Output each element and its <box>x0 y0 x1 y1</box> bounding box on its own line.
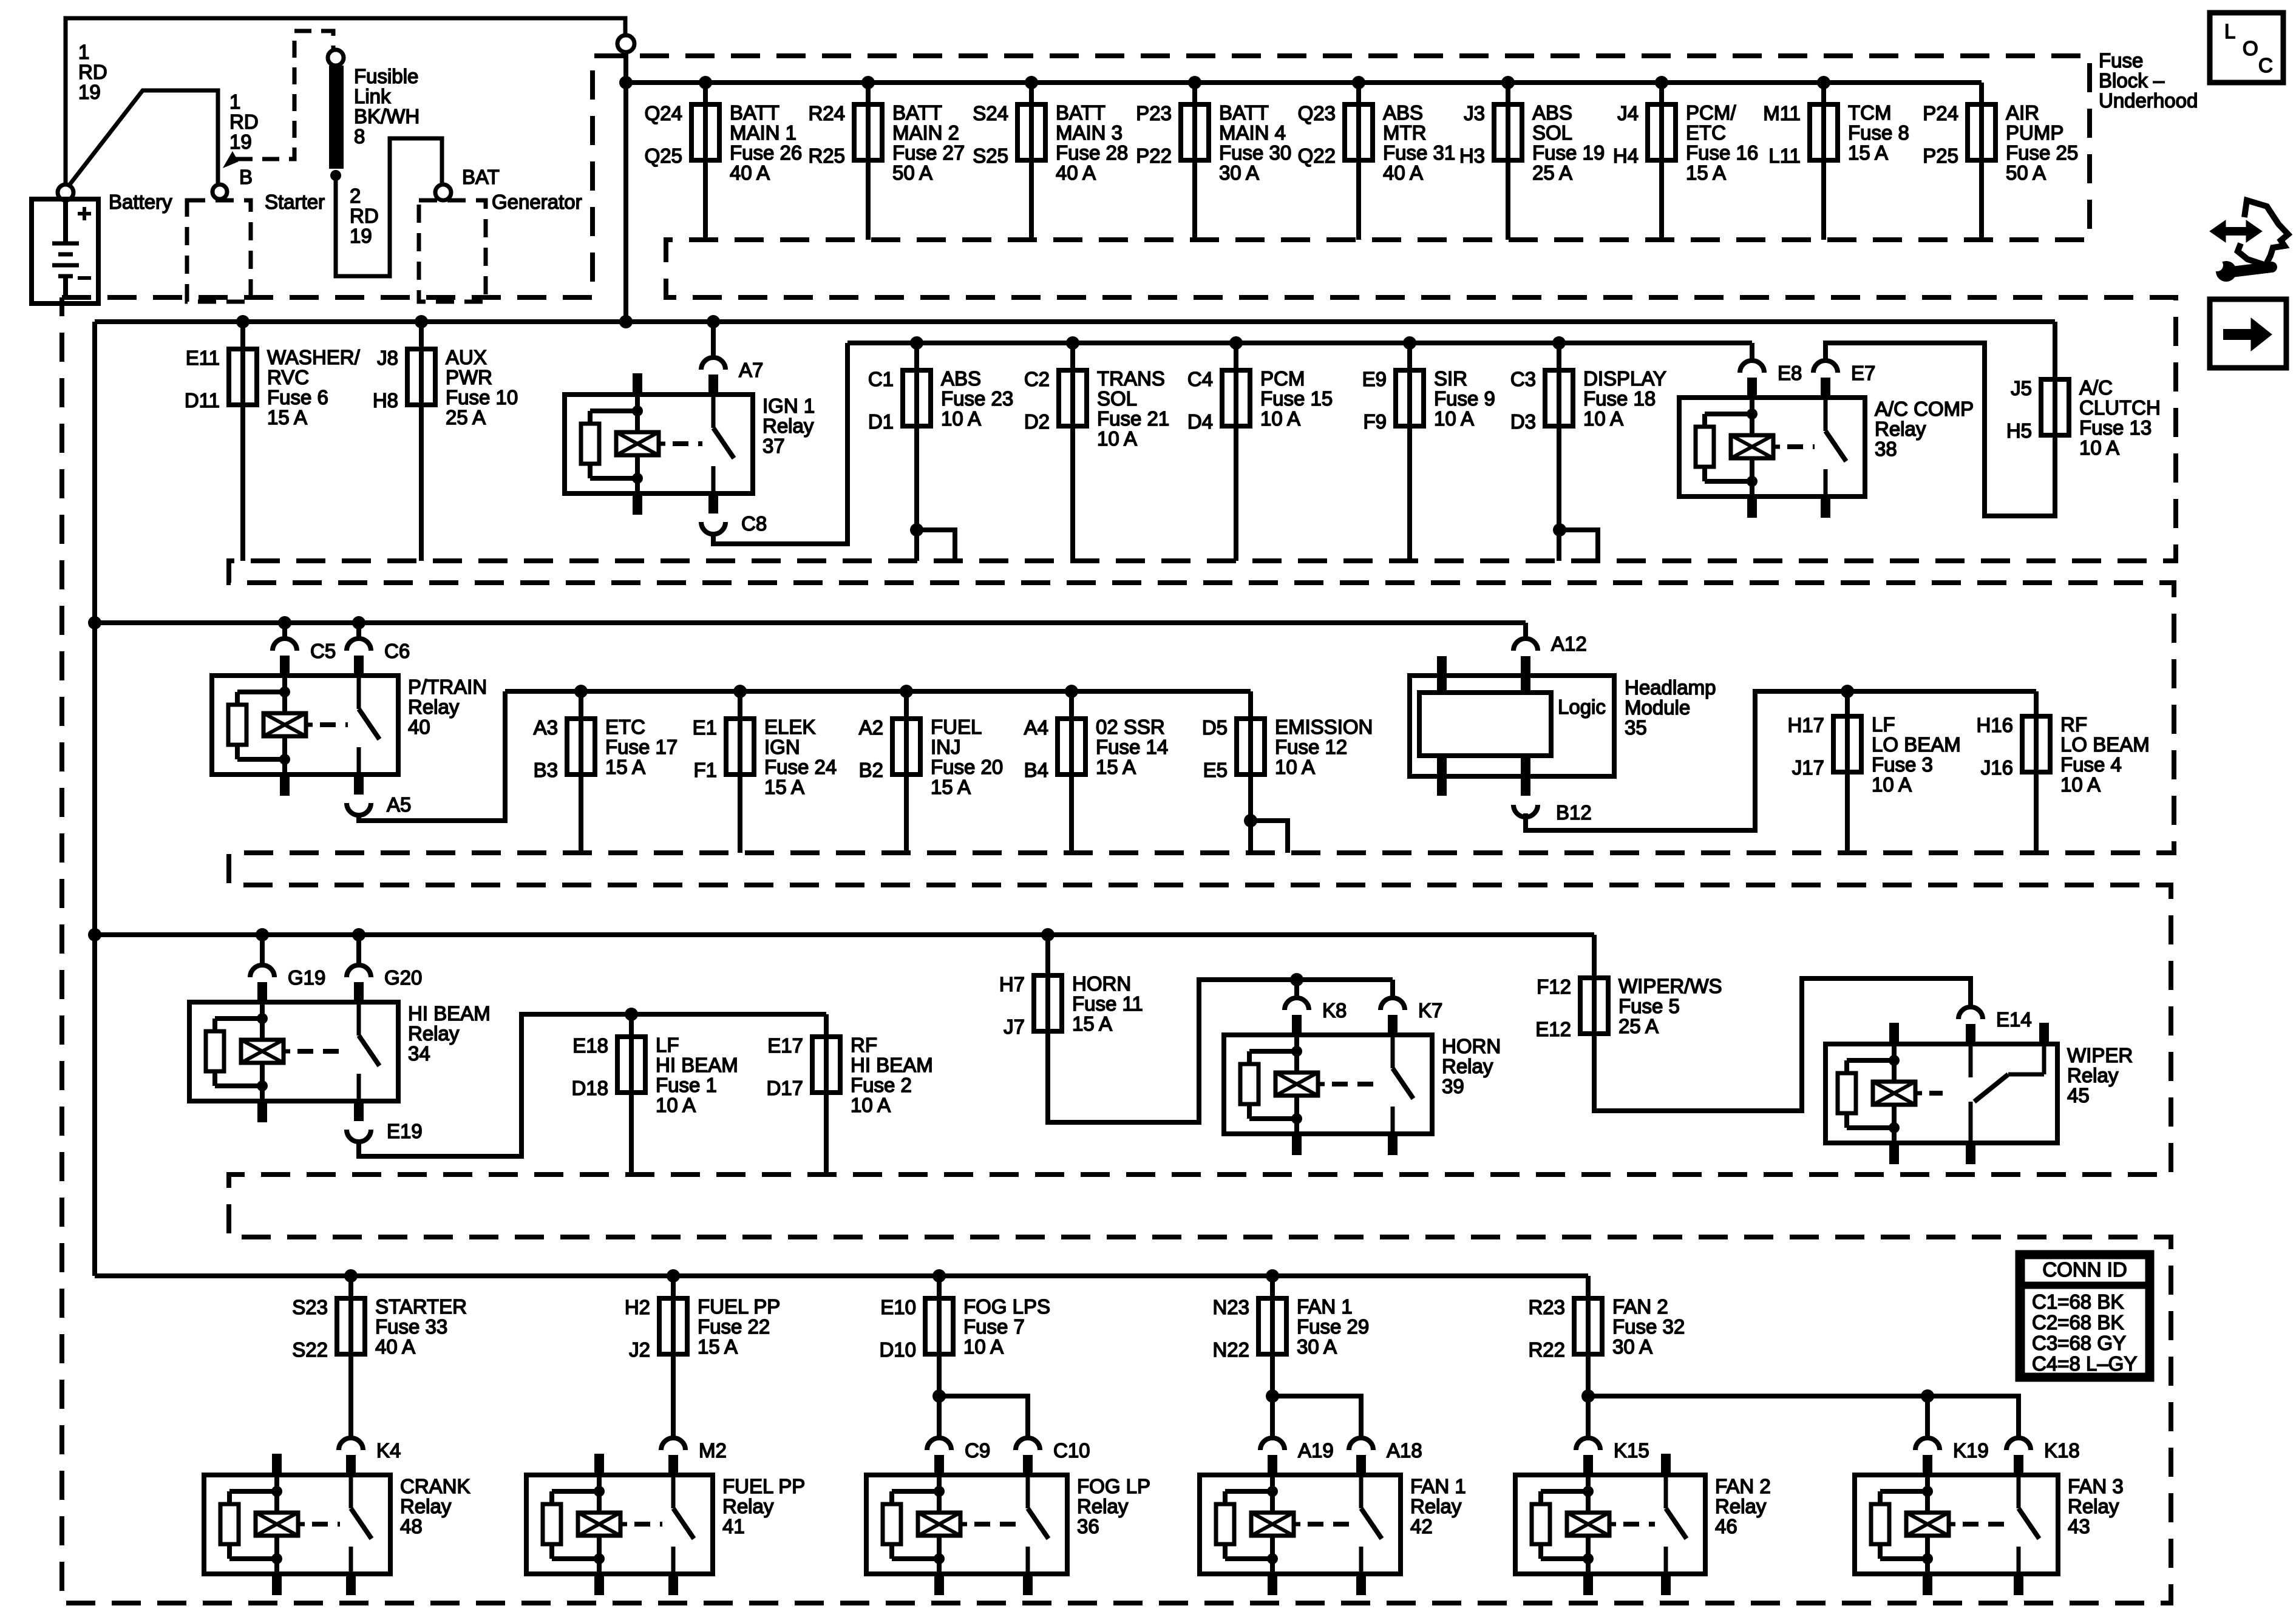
svg-text:H17: H17 <box>1787 714 1824 736</box>
svg-text:M11: M11 <box>1763 102 1801 124</box>
svg-text:C3=68 GY: C3=68 GY <box>2032 1332 2126 1354</box>
svg-text:Fuse 1: Fuse 1 <box>656 1074 717 1096</box>
svg-text:Fuse 11: Fuse 11 <box>1072 992 1143 1015</box>
svg-text:S22: S22 <box>292 1338 328 1361</box>
svg-text:HI BEAM: HI BEAM <box>851 1054 933 1076</box>
svg-text:Q23: Q23 <box>1298 102 1336 124</box>
svg-text:41: 41 <box>722 1515 745 1537</box>
svg-text:FOG LPS: FOG LPS <box>963 1295 1050 1318</box>
svg-text:H8: H8 <box>373 389 398 412</box>
svg-text:WASHER/: WASHER/ <box>267 346 361 368</box>
svg-text:P22: P22 <box>1136 144 1172 167</box>
svg-text:C: C <box>2258 54 2273 76</box>
svg-text:R25: R25 <box>808 144 845 167</box>
svg-text:Fuse 26: Fuse 26 <box>730 141 802 164</box>
svg-text:FUEL PP: FUEL PP <box>722 1475 805 1497</box>
svg-text:RD: RD <box>350 205 379 227</box>
svg-text:E11: E11 <box>186 347 220 369</box>
svg-text:Relay: Relay <box>1875 418 1926 440</box>
svg-text:RD: RD <box>229 110 259 133</box>
svg-text:Relay: Relay <box>1715 1495 1767 1517</box>
svg-text:ABS: ABS <box>1383 101 1423 124</box>
svg-text:36: 36 <box>1077 1515 1099 1537</box>
svg-text:A12: A12 <box>1551 632 1587 655</box>
svg-text:Fuse 3: Fuse 3 <box>1872 753 1933 776</box>
svg-text:40: 40 <box>408 716 430 738</box>
svg-text:E9: E9 <box>1362 368 1387 390</box>
svg-text:B4: B4 <box>1024 759 1048 781</box>
svg-text:HORN: HORN <box>1072 972 1131 995</box>
svg-text:K7: K7 <box>1418 999 1442 1022</box>
svg-text:CRANK: CRANK <box>400 1475 470 1497</box>
svg-text:E10: E10 <box>880 1296 916 1318</box>
svg-text:D3: D3 <box>1510 410 1536 433</box>
svg-text:Relay: Relay <box>1442 1055 1493 1077</box>
svg-text:P23: P23 <box>1136 102 1172 124</box>
svg-text:A19: A19 <box>1298 1439 1334 1462</box>
svg-text:A4: A4 <box>1024 716 1048 739</box>
svg-text:A5: A5 <box>387 793 411 816</box>
svg-text:BAT: BAT <box>462 166 500 188</box>
svg-text:37: 37 <box>763 435 785 457</box>
svg-text:B2: B2 <box>859 759 883 781</box>
svg-text:O: O <box>2243 37 2258 59</box>
svg-text:Relay: Relay <box>2068 1495 2119 1517</box>
svg-text:Q22: Q22 <box>1298 144 1336 167</box>
svg-text:G20: G20 <box>384 966 422 989</box>
svg-text:15 A: 15 A <box>267 406 307 429</box>
svg-text:MAIN 1: MAIN 1 <box>730 121 796 144</box>
svg-text:H5: H5 <box>2006 419 2032 442</box>
svg-text:K19: K19 <box>1953 1439 1989 1462</box>
svg-text:15 A: 15 A <box>698 1335 738 1358</box>
svg-text:C2=68 BK: C2=68 BK <box>2032 1311 2124 1334</box>
svg-text:C4=8 L–GY: C4=8 L–GY <box>2032 1352 2137 1375</box>
svg-text:R22: R22 <box>1528 1338 1565 1361</box>
svg-text:IGN: IGN <box>764 736 800 758</box>
svg-text:A7: A7 <box>739 359 763 381</box>
svg-text:D17: D17 <box>766 1077 803 1099</box>
svg-text:Fuse 30: Fuse 30 <box>1219 141 1291 164</box>
svg-text:50 A: 50 A <box>892 161 932 184</box>
svg-text:SOL: SOL <box>1532 121 1572 144</box>
svg-text:H3: H3 <box>1459 144 1485 167</box>
svg-text:PUMP: PUMP <box>2006 121 2063 144</box>
svg-text:10 A: 10 A <box>1434 407 1474 430</box>
svg-text:J16: J16 <box>1981 756 2013 779</box>
svg-text:15 A: 15 A <box>931 776 971 798</box>
svg-text:FAN 1: FAN 1 <box>1297 1295 1353 1318</box>
svg-text:HI BEAM: HI BEAM <box>408 1002 491 1025</box>
svg-text:Fuse: Fuse <box>2099 49 2143 72</box>
svg-text:C1=68 BK: C1=68 BK <box>2032 1290 2124 1313</box>
svg-text:Relay: Relay <box>763 415 814 437</box>
svg-text:J8: J8 <box>377 347 398 369</box>
svg-text:K8: K8 <box>1322 999 1347 1022</box>
svg-text:BATT: BATT <box>1219 101 1269 124</box>
svg-text:30 A: 30 A <box>1612 1335 1652 1358</box>
svg-text:CONN ID: CONN ID <box>2042 1258 2127 1281</box>
svg-text:E18: E18 <box>572 1034 608 1057</box>
svg-text:Starter: Starter <box>265 191 325 213</box>
svg-text:40 A: 40 A <box>1056 161 1096 184</box>
svg-text:FAN 2: FAN 2 <box>1612 1295 1668 1318</box>
svg-text:40 A: 40 A <box>730 161 770 184</box>
svg-text:BATT: BATT <box>730 101 779 124</box>
svg-text:E1: E1 <box>693 716 717 739</box>
svg-text:ABS: ABS <box>1532 101 1572 124</box>
svg-text:A/C: A/C <box>2079 376 2113 399</box>
svg-text:Fuse 13: Fuse 13 <box>2079 416 2152 439</box>
svg-text:Fuse 21: Fuse 21 <box>1097 407 1169 430</box>
svg-text:RF: RF <box>851 1034 877 1056</box>
svg-text:A/C COMP: A/C COMP <box>1875 398 1974 420</box>
svg-text:HI BEAM: HI BEAM <box>656 1054 738 1076</box>
svg-text:P24: P24 <box>1923 102 1958 124</box>
svg-text:1: 1 <box>78 41 89 63</box>
svg-text:E5: E5 <box>1203 759 1228 781</box>
svg-text:10 A: 10 A <box>2060 773 2101 796</box>
svg-text:Fuse 24: Fuse 24 <box>764 756 837 778</box>
svg-text:2: 2 <box>350 185 361 207</box>
svg-text:15 A: 15 A <box>1096 756 1136 778</box>
svg-text:15 A: 15 A <box>1072 1012 1112 1035</box>
svg-text:F9: F9 <box>1363 410 1387 433</box>
svg-text:10 A: 10 A <box>851 1094 891 1116</box>
svg-text:Fuse 33: Fuse 33 <box>375 1315 447 1338</box>
svg-text:D18: D18 <box>571 1077 608 1099</box>
svg-text:B3: B3 <box>534 759 558 781</box>
svg-text:C5: C5 <box>310 640 336 662</box>
svg-text:40 A: 40 A <box>375 1335 415 1358</box>
svg-text:BATT: BATT <box>892 101 942 124</box>
svg-text:40 A: 40 A <box>1383 161 1423 184</box>
svg-text:Fuse 20: Fuse 20 <box>931 756 1003 778</box>
svg-text:Fuse 27: Fuse 27 <box>892 141 965 164</box>
svg-text:H4: H4 <box>1613 144 1639 167</box>
svg-text:C6: C6 <box>384 640 410 662</box>
svg-text:INJ: INJ <box>931 736 961 758</box>
svg-text:D4: D4 <box>1187 410 1213 433</box>
svg-text:E12: E12 <box>1535 1018 1571 1040</box>
svg-text:Fuse 15: Fuse 15 <box>1260 387 1333 410</box>
svg-text:Module: Module <box>1625 696 1690 719</box>
svg-text:D5: D5 <box>1202 716 1228 739</box>
svg-text:19: 19 <box>78 81 101 103</box>
svg-text:BK/WH: BK/WH <box>354 105 419 127</box>
svg-text:Fuse 29: Fuse 29 <box>1297 1315 1369 1338</box>
svg-text:ETC: ETC <box>605 716 645 738</box>
svg-text:10 A: 10 A <box>963 1335 1004 1358</box>
svg-text:Fuse 7: Fuse 7 <box>963 1315 1025 1338</box>
svg-text:J5: J5 <box>2011 377 2032 399</box>
svg-text:35: 35 <box>1625 716 1647 739</box>
svg-text:Relay: Relay <box>408 696 460 718</box>
svg-text:F1: F1 <box>693 759 717 781</box>
svg-text:C10: C10 <box>1053 1439 1090 1462</box>
svg-text:P/TRAIN: P/TRAIN <box>408 676 487 698</box>
svg-text:48: 48 <box>400 1515 423 1537</box>
svg-text:Fuse 28: Fuse 28 <box>1056 141 1128 164</box>
svg-text:J4: J4 <box>1617 102 1639 124</box>
svg-text:P25: P25 <box>1923 144 1958 167</box>
svg-text:D2: D2 <box>1024 410 1050 433</box>
svg-text:J17: J17 <box>1792 756 1824 779</box>
svg-text:FUEL: FUEL <box>931 716 982 738</box>
svg-text:K4: K4 <box>376 1439 401 1462</box>
svg-text:Fuse 8: Fuse 8 <box>1848 121 1909 144</box>
svg-text:MAIN 3: MAIN 3 <box>1056 121 1123 144</box>
svg-text:10 A: 10 A <box>941 407 981 430</box>
svg-text:B12: B12 <box>1556 801 1592 824</box>
svg-text:MTR: MTR <box>1383 121 1426 144</box>
svg-text:Fuse 17: Fuse 17 <box>605 736 678 758</box>
svg-text:L11: L11 <box>1768 144 1801 167</box>
svg-text:Fuse 2: Fuse 2 <box>851 1074 912 1096</box>
svg-text:K15: K15 <box>1614 1439 1649 1462</box>
svg-text:02 SSR: 02 SSR <box>1096 716 1165 738</box>
svg-text:F12: F12 <box>1537 975 1571 998</box>
svg-text:B: B <box>239 166 253 188</box>
svg-text:15 A: 15 A <box>764 776 804 798</box>
svg-text:A2: A2 <box>859 716 883 739</box>
svg-text:A18: A18 <box>1387 1439 1422 1462</box>
svg-text:50 A: 50 A <box>2006 161 2046 184</box>
svg-text:AIR: AIR <box>2006 101 2039 124</box>
svg-text:S24: S24 <box>973 102 1008 124</box>
svg-text:RVC: RVC <box>267 366 309 388</box>
svg-text:10 A: 10 A <box>1872 773 1912 796</box>
svg-text:DISPLAY: DISPLAY <box>1583 367 1666 390</box>
svg-text:Fusible: Fusible <box>354 65 418 87</box>
svg-text:J3: J3 <box>1464 102 1485 124</box>
svg-text:42: 42 <box>1410 1515 1433 1537</box>
svg-text:RF: RF <box>2060 713 2087 736</box>
svg-text:46: 46 <box>1715 1515 1737 1537</box>
svg-text:Fuse 19: Fuse 19 <box>1532 141 1605 164</box>
svg-text:MAIN 4: MAIN 4 <box>1219 121 1286 144</box>
svg-text:D11: D11 <box>185 389 220 412</box>
svg-text:E14: E14 <box>1996 1008 2032 1031</box>
svg-text:LO BEAM: LO BEAM <box>1872 733 1961 756</box>
svg-text:HORN: HORN <box>1442 1035 1501 1057</box>
svg-text:43: 43 <box>2068 1515 2090 1537</box>
svg-text:D1: D1 <box>868 410 894 433</box>
svg-text:Relay: Relay <box>2067 1064 2119 1086</box>
svg-text:15 A: 15 A <box>605 756 645 778</box>
svg-text:LF: LF <box>656 1034 679 1056</box>
svg-text:39: 39 <box>1442 1075 1464 1097</box>
svg-text:25 A: 25 A <box>1618 1015 1659 1037</box>
svg-text:FOG LP: FOG LP <box>1077 1475 1150 1497</box>
svg-text:S25: S25 <box>973 144 1008 167</box>
svg-text:N22: N22 <box>1212 1338 1249 1361</box>
svg-text:M2: M2 <box>699 1439 727 1462</box>
svg-text:H7: H7 <box>999 973 1025 995</box>
svg-text:IGN 1: IGN 1 <box>763 395 815 417</box>
svg-text:10 A: 10 A <box>656 1094 696 1116</box>
svg-text:Fuse 4: Fuse 4 <box>2060 753 2122 776</box>
svg-text:Relay: Relay <box>722 1495 774 1517</box>
svg-text:C2: C2 <box>1024 368 1050 390</box>
svg-text:EMISSION: EMISSION <box>1275 716 1373 738</box>
svg-text:WIPER/WS: WIPER/WS <box>1618 975 1722 997</box>
svg-text:15 A: 15 A <box>1686 161 1726 184</box>
svg-text:Battery: Battery <box>109 191 172 213</box>
svg-text:STARTER: STARTER <box>375 1295 467 1318</box>
svg-text:LO BEAM: LO BEAM <box>2060 733 2150 756</box>
svg-text:Underhood: Underhood <box>2099 89 2198 112</box>
svg-text:Fuse 5: Fuse 5 <box>1618 995 1680 1017</box>
svg-text:Fuse 32: Fuse 32 <box>1612 1315 1685 1338</box>
svg-text:A3: A3 <box>534 716 558 739</box>
svg-text:ELEK: ELEK <box>764 716 815 738</box>
svg-text:SOL: SOL <box>1097 387 1137 410</box>
svg-text:Fuse 14: Fuse 14 <box>1096 736 1168 758</box>
svg-text:ABS: ABS <box>941 367 981 390</box>
svg-text:H16: H16 <box>1976 714 2013 736</box>
svg-text:TRANS: TRANS <box>1097 367 1165 390</box>
svg-text:34: 34 <box>408 1042 430 1065</box>
svg-text:19: 19 <box>229 131 252 153</box>
svg-text:AUX: AUX <box>446 346 487 368</box>
svg-text:LF: LF <box>1872 713 1895 736</box>
svg-text:30 A: 30 A <box>1219 161 1259 184</box>
svg-text:Fuse 22: Fuse 22 <box>698 1315 770 1338</box>
svg-text:WIPER: WIPER <box>2067 1044 2133 1066</box>
svg-text:R23: R23 <box>1528 1296 1565 1318</box>
svg-text:PWR: PWR <box>446 366 492 388</box>
svg-text:Fuse 9: Fuse 9 <box>1434 387 1495 410</box>
svg-text:Fuse 18: Fuse 18 <box>1583 387 1656 410</box>
svg-text:C1: C1 <box>868 368 894 390</box>
svg-text:Fuse 31: Fuse 31 <box>1383 141 1455 164</box>
svg-text:Relay: Relay <box>1077 1495 1129 1517</box>
svg-text:N23: N23 <box>1212 1296 1249 1318</box>
svg-text:Relay: Relay <box>1410 1495 1462 1517</box>
svg-text:1: 1 <box>229 90 240 113</box>
svg-text:C9: C9 <box>965 1439 990 1462</box>
svg-text:BATT: BATT <box>1056 101 1106 124</box>
svg-text:TCM: TCM <box>1848 101 1891 124</box>
svg-text:Generator: Generator <box>492 191 582 213</box>
svg-text:C4: C4 <box>1187 368 1213 390</box>
svg-text:FAN 1: FAN 1 <box>1410 1475 1466 1497</box>
svg-text:15 A: 15 A <box>1848 141 1888 164</box>
svg-text:Q25: Q25 <box>645 144 682 167</box>
svg-text:10 A: 10 A <box>1097 427 1137 450</box>
svg-text:FUEL PP: FUEL PP <box>698 1295 780 1318</box>
svg-text:Fuse 10: Fuse 10 <box>446 386 518 408</box>
svg-text:25 A: 25 A <box>1532 161 1572 184</box>
svg-text:E7: E7 <box>1851 362 1875 384</box>
svg-text:PCM/: PCM/ <box>1686 101 1736 124</box>
svg-text:Fuse 23: Fuse 23 <box>941 387 1013 410</box>
svg-text:10 A: 10 A <box>1583 407 1623 430</box>
svg-text:S23: S23 <box>292 1296 328 1318</box>
svg-text:C3: C3 <box>1510 368 1536 390</box>
svg-text:Relay: Relay <box>408 1022 460 1045</box>
svg-text:L: L <box>2224 20 2235 42</box>
svg-text:G19: G19 <box>288 966 325 989</box>
svg-text:FAN 2: FAN 2 <box>1715 1475 1771 1497</box>
svg-text:Link: Link <box>354 85 391 107</box>
svg-text:45: 45 <box>2067 1084 2090 1107</box>
svg-text:C8: C8 <box>741 512 767 535</box>
svg-text:38: 38 <box>1875 438 1897 460</box>
svg-text:10 A: 10 A <box>1275 756 1315 778</box>
svg-text:PCM: PCM <box>1260 367 1305 390</box>
svg-text:RD: RD <box>78 61 107 83</box>
svg-text:J2: J2 <box>629 1338 650 1361</box>
svg-text:Headlamp: Headlamp <box>1625 676 1716 699</box>
svg-text:19: 19 <box>350 225 372 247</box>
svg-text:8: 8 <box>354 125 365 147</box>
svg-text:ETC: ETC <box>1686 121 1726 144</box>
svg-text:E8: E8 <box>1778 362 1802 384</box>
svg-text:30 A: 30 A <box>1297 1335 1337 1358</box>
svg-text:FAN 3: FAN 3 <box>2068 1475 2124 1497</box>
svg-text:J7: J7 <box>1004 1015 1025 1038</box>
svg-text:Fuse 6: Fuse 6 <box>267 386 328 408</box>
svg-text:MAIN 2: MAIN 2 <box>892 121 959 144</box>
svg-text:Fuse 25: Fuse 25 <box>2006 141 2078 164</box>
svg-text:Logic: Logic <box>1558 696 1606 718</box>
svg-text:R24: R24 <box>808 102 845 124</box>
svg-text:Fuse 12: Fuse 12 <box>1275 736 1347 758</box>
svg-text:Block –: Block – <box>2099 69 2165 92</box>
svg-text:CLUTCH: CLUTCH <box>2079 396 2161 419</box>
svg-text:Fuse 16: Fuse 16 <box>1686 141 1758 164</box>
svg-text:H2: H2 <box>625 1296 650 1318</box>
svg-text:D10: D10 <box>879 1338 916 1361</box>
svg-text:E19: E19 <box>387 1120 423 1142</box>
svg-text:SIR: SIR <box>1434 367 1467 390</box>
svg-text:K18: K18 <box>2044 1439 2080 1462</box>
svg-text:E17: E17 <box>767 1034 803 1057</box>
svg-text:10 A: 10 A <box>1260 407 1300 430</box>
svg-text:Q24: Q24 <box>645 102 682 124</box>
svg-text:25 A: 25 A <box>446 406 486 429</box>
svg-text:Relay: Relay <box>400 1495 452 1517</box>
svg-text:10 A: 10 A <box>2079 436 2119 459</box>
